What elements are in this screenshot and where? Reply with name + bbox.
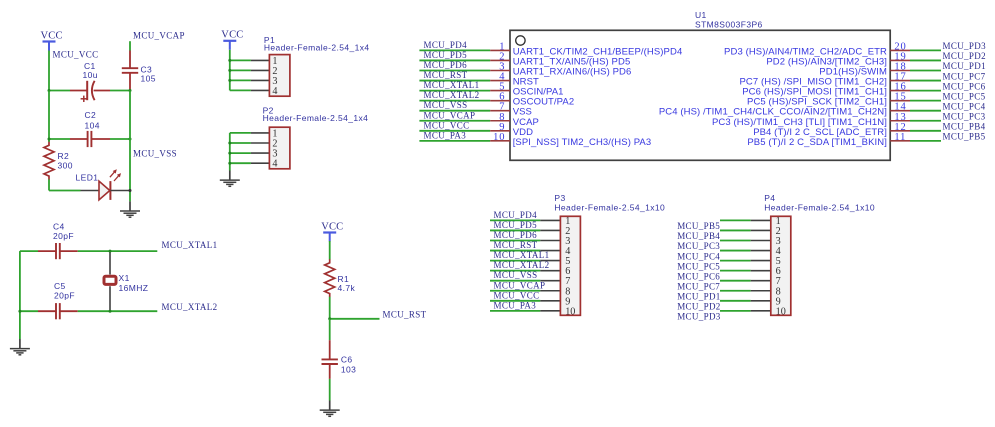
net label MCU_RST (P3)	[494, 240, 538, 250]
svg-text:MCU_PB4: MCU_PB4	[677, 231, 720, 241]
svg-text:10: 10	[776, 306, 786, 317]
pin name PC5 (HS)/SPI_SCK [TIM2_CH1]	[747, 97, 887, 108]
wire VCC to P1 bus	[229, 50, 231, 91]
value label Header-Female-2.54_1x10 (P4)	[764, 203, 875, 213]
wire net MCU_PC4 to P4 pin 4	[720, 250, 771, 252]
pin name PC3 (HS)/TIM1_CH3 [TLI] [TIM1_CH1N]	[712, 117, 887, 128]
wire net MCU_RST to U1 pin 4	[419, 80, 490, 82]
capacitor C3	[122, 51, 138, 91]
pin 9 of U1	[490, 130, 510, 132]
connector P3	[560, 216, 580, 317]
wire net MCU_PD6 to U1 pin 3	[419, 70, 490, 72]
svg-text:MCU_PC5: MCU_PC5	[677, 261, 720, 271]
pin 12 of U1	[890, 130, 910, 132]
net label MCU_VSS	[424, 100, 468, 110]
wire net MCU_VCAP to P3 pin 8	[490, 290, 560, 292]
junction node left vertical / XTAL2 row	[18, 310, 21, 313]
value label C2 104	[85, 110, 100, 131]
wire C6 to ground	[329, 379, 331, 401]
net label MCU_PB4	[943, 122, 986, 132]
LED LED1	[81, 169, 131, 200]
pin 4 of U1	[490, 80, 510, 82]
pin 10 of U1	[490, 140, 510, 142]
junction node P2 bus	[228, 162, 231, 165]
net label MCU_VCAP	[133, 31, 185, 41]
svg-text:10: 10	[493, 132, 505, 143]
wire net MCU_PD5 to U1 pin 2	[419, 59, 490, 61]
svg-text:Header-Female-2.54_1x10: Header-Female-2.54_1x10	[764, 203, 875, 213]
wire net MCU_PA3 to P3 pin 10	[490, 310, 560, 312]
pin 19 of U1	[890, 59, 910, 61]
wire net MCU_PD3 to P4 pin 10	[720, 310, 771, 312]
net label MCU_XTAL2	[424, 90, 480, 100]
junction node P2 bus	[228, 142, 231, 145]
wire crystal-cap left vertical	[19, 251, 21, 339]
capacitor C1 (polarized)	[70, 81, 110, 102]
net label MCU_PD5 (P3)	[494, 220, 538, 230]
wire net MCU_PD4 to P3 pin 1	[490, 219, 560, 221]
wire U1 pin 20 to net MCU_PD3	[910, 49, 941, 51]
wire C2 row left segment	[49, 138, 70, 140]
pin 1 of U1	[490, 49, 510, 51]
svg-text:4: 4	[272, 159, 277, 170]
svg-text:STM8S003F3P6: STM8S003F3P6	[695, 20, 763, 30]
svg-text:MCU_VSS: MCU_VSS	[424, 100, 468, 110]
net label MCU_VCC	[53, 50, 99, 60]
junction node MCU_RST	[328, 317, 331, 320]
pin name PD3 (HS)/AIN4/TIM2_CH2/ADC_ETR	[724, 46, 887, 57]
wire net MCU_PB5 to P4 pin 1	[720, 219, 771, 221]
wire C2 row right segment	[110, 138, 130, 140]
wire U1 pin 19 to net MCU_PD2	[910, 59, 941, 61]
wire U1 pin 13 to net MCU_PC3	[910, 120, 941, 122]
net label MCU_PD3	[943, 41, 987, 51]
value label C6 103	[341, 355, 356, 375]
svg-text:MCU_PD1: MCU_PD1	[677, 291, 720, 301]
pin number 5	[499, 82, 505, 93]
wire U1 pin 17 to net MCU_PC7	[910, 80, 941, 82]
pin number 6	[499, 92, 505, 103]
pin name [SPI_NSS] TIM2_CH3/(HS) PA3	[513, 137, 652, 148]
svg-text:MCU_VCAP: MCU_VCAP	[133, 31, 185, 41]
power flag VCC (P1 header)	[221, 30, 243, 50]
pin number 9	[499, 122, 505, 133]
pin number 4	[499, 72, 505, 83]
net label MCU_PA3 (P3)	[494, 300, 537, 310]
net label MCU_PC5 (P4)	[677, 261, 720, 271]
svg-text:MCU_PD3: MCU_PD3	[943, 41, 987, 51]
junction node crystal bottom	[109, 310, 112, 313]
svg-text:300: 300	[58, 161, 73, 171]
connector P2	[269, 127, 290, 170]
reference label P2	[263, 106, 274, 116]
wire net MCU_XTAL2 to P3 pin 6	[490, 270, 560, 272]
pin number 2	[499, 51, 505, 62]
ground G1 (LED / MCU_VSS)	[120, 201, 140, 217]
pin name UART1_RX/AIN6/(HS) PD6	[513, 67, 632, 78]
wire R1 bottom to RST node	[329, 297, 331, 319]
ground G3 (P2)	[220, 171, 240, 187]
net label MCU_PC3 (P4)	[677, 241, 720, 251]
pin 20 of U1	[890, 49, 910, 51]
net label MCU_PC5	[943, 91, 986, 101]
net label MCU_PD1	[943, 61, 986, 71]
value label C3 105	[141, 65, 156, 84]
wire net MCU_VSS to U1 pin 7	[419, 110, 490, 112]
value label Header-Female-2.54_1x4 (P2)	[263, 113, 369, 123]
wire R2 bottom to LED row	[49, 179, 81, 190]
svg-text:MCU_PD6: MCU_PD6	[494, 230, 538, 240]
svg-text:MCU_PC3: MCU_PC3	[943, 111, 986, 121]
wire net MCU_PC3 to P4 pin 3	[720, 240, 771, 242]
svg-text:MCU_PD5: MCU_PD5	[424, 50, 468, 60]
net label MCU_VCC	[424, 120, 470, 130]
pin 7 of U1	[490, 110, 510, 112]
pin number 12	[894, 122, 906, 133]
capacitor C4	[38, 243, 78, 259]
junction node at C3 / C1 row	[129, 89, 132, 92]
wire net MCU_PC6 to P4 pin 6	[720, 270, 771, 272]
svg-text:MCU_PD6: MCU_PD6	[424, 60, 468, 70]
pin name PD2 (HS)/AIN3/[TIM2_CH3]	[766, 56, 887, 67]
svg-text:MCU_RST: MCU_RST	[383, 310, 427, 320]
pin 2 of U1	[490, 59, 510, 61]
wire net MCU_PB4 to P4 pin 2	[720, 229, 771, 231]
net label MCU_PC4 (P4)	[677, 251, 720, 261]
svg-text:MCU_XTAL1: MCU_XTAL1	[494, 250, 550, 260]
net label MCU_PC7 (P4)	[677, 281, 720, 291]
net label MCU_PD2 (P4)	[677, 302, 720, 312]
junction node P1 bus	[228, 59, 231, 62]
svg-text:10: 10	[565, 306, 575, 317]
svg-text:Header-Female-2.54_1x4: Header-Female-2.54_1x4	[264, 43, 370, 53]
net label MCU_PD6 (P3)	[494, 230, 538, 240]
net label MCU_PD1 (P4)	[677, 291, 720, 301]
pin 6 of U1	[490, 100, 510, 102]
pin name NRST	[513, 77, 539, 88]
value label R2 300	[58, 151, 73, 171]
pin number 13	[894, 112, 906, 123]
net label MCU_VCC (P3)	[494, 290, 540, 300]
pin 5 of U1	[490, 90, 510, 92]
svg-text:MCU_VCC: MCU_VCC	[494, 290, 540, 300]
net label MCU_PC3	[943, 111, 986, 121]
reference label P3	[554, 193, 565, 203]
svg-text:MCU_PC4: MCU_PC4	[677, 251, 720, 261]
junction node left vertical / C2 row	[48, 138, 51, 141]
pin name PB5 (T)/I 2 C_SDA [TIM1_BKIN]	[747, 137, 887, 148]
svg-text:MCU_PC3: MCU_PC3	[677, 241, 720, 251]
reference label P4	[764, 193, 775, 203]
svg-text:20pF: 20pF	[54, 290, 75, 300]
capacitor C6	[322, 340, 338, 379]
wire P1 pin 4	[230, 89, 270, 91]
wire P2 bus to ground	[229, 133, 231, 171]
wire net MCU_VCC to P3 pin 9	[490, 300, 560, 302]
pin number 16	[894, 82, 906, 93]
pin name VCAP	[513, 117, 539, 128]
net label MCU_RST	[424, 70, 468, 80]
svg-text:MCU_PD2: MCU_PD2	[677, 302, 720, 312]
wire net MCU_XTAL2 to U1 pin 6	[419, 100, 490, 102]
pin 15 of U1	[890, 100, 910, 102]
net label MCU_PD5	[424, 50, 468, 60]
wire net MCU_PD2 to P4 pin 9	[720, 300, 771, 302]
wire net MCU_VCAP to U1 pin 8	[419, 120, 490, 122]
reference label U1	[695, 10, 707, 20]
pin number 20	[894, 41, 906, 52]
power flag VCC (reset pull-up)	[321, 221, 343, 241]
svg-text:LED1: LED1	[76, 173, 99, 183]
pin number 17	[894, 72, 906, 83]
svg-text:MCU_PD4: MCU_PD4	[424, 40, 468, 50]
value label Header-Female-2.54_1x4 (P1)	[264, 43, 370, 53]
svg-text:MCU_PB4: MCU_PB4	[943, 122, 986, 132]
svg-text:VCC: VCC	[41, 30, 63, 41]
pin 11 of U1	[890, 140, 910, 142]
wire P1 pin 2	[230, 69, 270, 71]
net label MCU_PC4	[943, 101, 986, 111]
svg-text:MCU_PC7: MCU_PC7	[677, 281, 720, 291]
wire RST node down to C6	[329, 319, 331, 340]
wire MCU_XTAL1 row	[20, 250, 157, 252]
svg-text:MCU_PD2: MCU_PD2	[943, 51, 986, 61]
svg-text:MCU_VSS: MCU_VSS	[133, 149, 177, 159]
connector P1	[269, 55, 290, 97]
svg-text:4.7k: 4.7k	[338, 283, 356, 293]
svg-text:MCU_VCAP: MCU_VCAP	[424, 110, 476, 120]
wire net MCU_XTAL1 to P3 pin 5	[490, 260, 560, 262]
pin 3 of U1	[490, 70, 510, 72]
wire P1 pin 1	[230, 59, 270, 61]
svg-text:MCU_PC7: MCU_PC7	[943, 71, 986, 81]
junction node P2 bus	[228, 152, 231, 155]
net label MCU_PB4 (P4)	[677, 231, 720, 241]
value label R1 4.7k	[338, 274, 356, 293]
svg-text:MCU_RST: MCU_RST	[494, 240, 538, 250]
svg-text:X1: X1	[119, 273, 130, 283]
wire P2 pin 3	[230, 152, 270, 154]
svg-text:MCU_XTAL1: MCU_XTAL1	[424, 80, 480, 90]
net label MCU_PC6 (P4)	[677, 271, 720, 281]
junction node crystal top	[109, 250, 112, 253]
connector P4	[771, 216, 791, 317]
svg-text:Header-Female-2.54_1x4: Header-Female-2.54_1x4	[263, 113, 369, 123]
wire U1 pin 15 to net MCU_PC5	[910, 100, 941, 102]
wire U1 pin 18 to net MCU_PD1	[910, 70, 941, 72]
svg-text:MCU_XTAL2: MCU_XTAL2	[494, 260, 550, 270]
net label MCU_XTAL2 (P3)	[494, 260, 550, 270]
net label MCU_PD2	[943, 51, 986, 61]
value label Header-Female-2.54_1x10 (P3)	[554, 203, 665, 213]
ground G2 (crystal caps)	[10, 339, 30, 355]
wire U1 pin 14 to net MCU_PC4	[910, 110, 941, 112]
pin number 1	[499, 41, 505, 52]
junction node LED cathode / VSS vertical	[129, 189, 132, 192]
pin name PC6 (HS)/SPI_MOSI [TIM1_CH1]	[742, 87, 887, 98]
net label MCU_VCAP (P3)	[494, 280, 546, 290]
pin 14 of U1	[890, 110, 910, 112]
net label MCU_PC7	[943, 71, 986, 81]
wire VCC to R1	[329, 241, 331, 260]
wire P2 pin 1	[230, 132, 270, 134]
pin 8 of U1	[490, 120, 510, 122]
reference label LED1	[76, 173, 99, 183]
svg-text:105: 105	[141, 74, 156, 84]
wire net MCU_RST to P3 pin 4	[490, 250, 560, 252]
pin number 14	[894, 102, 906, 113]
net label MCU_PC6	[943, 81, 986, 91]
value label C5 20pF	[54, 281, 75, 300]
wire net MCU_PA3 to U1 pin 10	[419, 140, 490, 142]
net label MCU_PB5	[943, 132, 986, 142]
pin 13 of U1	[890, 120, 910, 122]
net label MCU_VSS	[133, 149, 177, 159]
pin 16 of U1	[890, 90, 910, 92]
pin number 8	[499, 112, 505, 123]
power flag VCC (top-left)	[41, 30, 63, 50]
svg-text:MCU_VCC: MCU_VCC	[53, 50, 99, 60]
svg-text:10u: 10u	[83, 70, 98, 80]
value label C1 10u	[83, 61, 98, 80]
svg-text:VCC: VCC	[221, 30, 243, 41]
svg-text:Header-Female-2.54_1x10: Header-Female-2.54_1x10	[554, 203, 665, 213]
svg-text:MCU_VCAP: MCU_VCAP	[494, 280, 546, 290]
wire right vertical C1 row to ground	[129, 91, 131, 202]
svg-text:MCU_VCC: MCU_VCC	[424, 120, 470, 130]
pin number 10	[493, 132, 505, 143]
svg-text:C2: C2	[85, 110, 97, 120]
svg-text:C4: C4	[53, 221, 65, 231]
svg-text:MCU_RST: MCU_RST	[424, 70, 468, 80]
pin 18 of U1	[890, 70, 910, 72]
wire net MCU_XTAL1 to U1 pin 5	[419, 90, 490, 92]
capacitor C5	[38, 303, 78, 319]
resistor R2	[44, 142, 54, 180]
pin number 19	[894, 51, 906, 62]
op-amp U1 body (IC outline STM8S003F3P6)	[510, 30, 890, 160]
net label MCU_PA3	[424, 130, 467, 140]
wire net MCU_PD4 to U1 pin 1	[419, 49, 490, 51]
svg-text:MCU_XTAL1: MCU_XTAL1	[162, 240, 218, 250]
net label MCU_PD4 (P3)	[494, 210, 538, 220]
value label X1 16MHZ	[119, 273, 149, 293]
svg-text:MCU_VSS: MCU_VSS	[494, 270, 538, 280]
svg-text:11: 11	[894, 132, 906, 143]
svg-text:MCU_XTAL2: MCU_XTAL2	[424, 90, 480, 100]
junction node right vertical / C2 row	[129, 138, 132, 141]
wire left vertical C1 row to C2 row	[48, 91, 50, 143]
svg-text:C6: C6	[341, 355, 353, 365]
wire P2 pin 4	[230, 162, 270, 164]
svg-text:103: 103	[341, 365, 356, 375]
junction node P1 bus	[228, 79, 231, 82]
net label MCU_RST	[383, 310, 427, 320]
svg-text:MCU_PD5: MCU_PD5	[494, 220, 538, 230]
pin number 15	[894, 92, 906, 103]
pin number 3	[499, 62, 505, 73]
wire MCU_XTAL2 row	[20, 310, 157, 312]
pin name UART1_TX/AIN5/(HS) PD5	[513, 56, 631, 67]
svg-text:MCU_PC5: MCU_PC5	[943, 91, 986, 101]
net label MCU_PD3 (P4)	[677, 312, 721, 322]
pin number 11	[894, 132, 906, 143]
svg-text:MCU_PC6: MCU_PC6	[943, 81, 986, 91]
pin name UART1_CK/TIM2_CH1/BEEP/(HS)PD4	[513, 46, 683, 57]
junction node left vertical / C1 row	[48, 89, 51, 92]
value label STM8S003F3P6	[695, 20, 763, 30]
svg-text:R2: R2	[58, 151, 70, 161]
wire U1 pin 12 to net MCU_PB4	[910, 130, 941, 132]
pin name VSS	[513, 107, 532, 118]
wire net MCU_VCC to U1 pin 9	[419, 130, 490, 132]
net label MCU_VCAP	[424, 110, 476, 120]
wire net MCU_PD1 to P4 pin 8	[720, 290, 771, 292]
net label MCU_PD6	[424, 60, 468, 70]
svg-text:104: 104	[85, 121, 100, 131]
svg-text:MCU_PD4: MCU_PD4	[494, 210, 538, 220]
wire MCU_RST stub	[330, 318, 380, 320]
net label MCU_XTAL1	[162, 240, 218, 250]
junction node P1 bus	[228, 69, 231, 72]
wire net MCU_VSS to P3 pin 7	[490, 280, 560, 282]
svg-text:MCU_PB5: MCU_PB5	[943, 132, 986, 142]
net label MCU_XTAL2	[162, 302, 218, 312]
pin 17 of U1	[890, 80, 910, 82]
pin number 18	[894, 62, 906, 73]
wire C1 row right segment	[110, 90, 130, 92]
pin name PC7 (HS) /SPI_MISO [TIM1_CH2]	[739, 77, 887, 88]
wire U1 pin 16 to net MCU_PC6	[910, 90, 941, 92]
pin name PD1(HS)/SWIM	[819, 67, 887, 78]
reference label P1	[264, 35, 275, 45]
svg-text:16MHZ: 16MHZ	[119, 283, 149, 293]
wire P2 pin 2	[230, 142, 270, 144]
svg-text:MCU_PB5: MCU_PB5	[677, 221, 720, 231]
wire C1 row left segment	[49, 90, 70, 92]
svg-text:PB5 (T)/I 2 C_SDA [TIM1_BKIN]: PB5 (T)/I 2 C_SDA [TIM1_BKIN]	[747, 137, 887, 148]
svg-text:VCC: VCC	[321, 221, 343, 232]
wire MCU_VCAP vertical	[129, 41, 131, 50]
wire net MCU_PC5 to P4 pin 5	[720, 260, 771, 262]
pin name OSCOUT/PA2	[513, 97, 575, 108]
wire VCC stem to node MCU_VCC	[48, 51, 50, 91]
pin name VDD	[513, 127, 533, 138]
svg-text:MCU_PC6: MCU_PC6	[677, 271, 720, 281]
net label MCU_XTAL1 (P3)	[494, 250, 550, 260]
wire net MCU_PC7 to P4 pin 7	[720, 280, 771, 282]
crystal X1	[104, 251, 116, 311]
svg-text:20pF: 20pF	[53, 231, 74, 241]
wire U1 pin 11 to net MCU_PB5	[910, 140, 941, 142]
net label MCU_PB5 (P4)	[677, 221, 720, 231]
svg-text:MCU_PA3: MCU_PA3	[494, 300, 537, 310]
wire P1 pin 3	[230, 79, 270, 81]
svg-text:MCU_PD1: MCU_PD1	[943, 61, 986, 71]
svg-text:MCU_PD3: MCU_PD3	[677, 312, 721, 322]
pin number 7	[499, 102, 505, 113]
svg-text:MCU_PC4: MCU_PC4	[943, 101, 986, 111]
svg-text:MCU_XTAL2: MCU_XTAL2	[162, 302, 218, 312]
capacitor C2	[70, 131, 110, 147]
net label MCU_XTAL1	[424, 80, 480, 90]
ground G4 (C6)	[320, 401, 340, 417]
pin name OSCIN/PA1	[513, 87, 564, 98]
svg-text:4: 4	[272, 86, 277, 97]
svg-text:[SPI_NSS] TIM2_CH3/(HS) PA3: [SPI_NSS] TIM2_CH3/(HS) PA3	[513, 137, 652, 148]
resistor R1	[325, 259, 335, 297]
wire net MCU_PD5 to P3 pin 2	[490, 229, 560, 231]
